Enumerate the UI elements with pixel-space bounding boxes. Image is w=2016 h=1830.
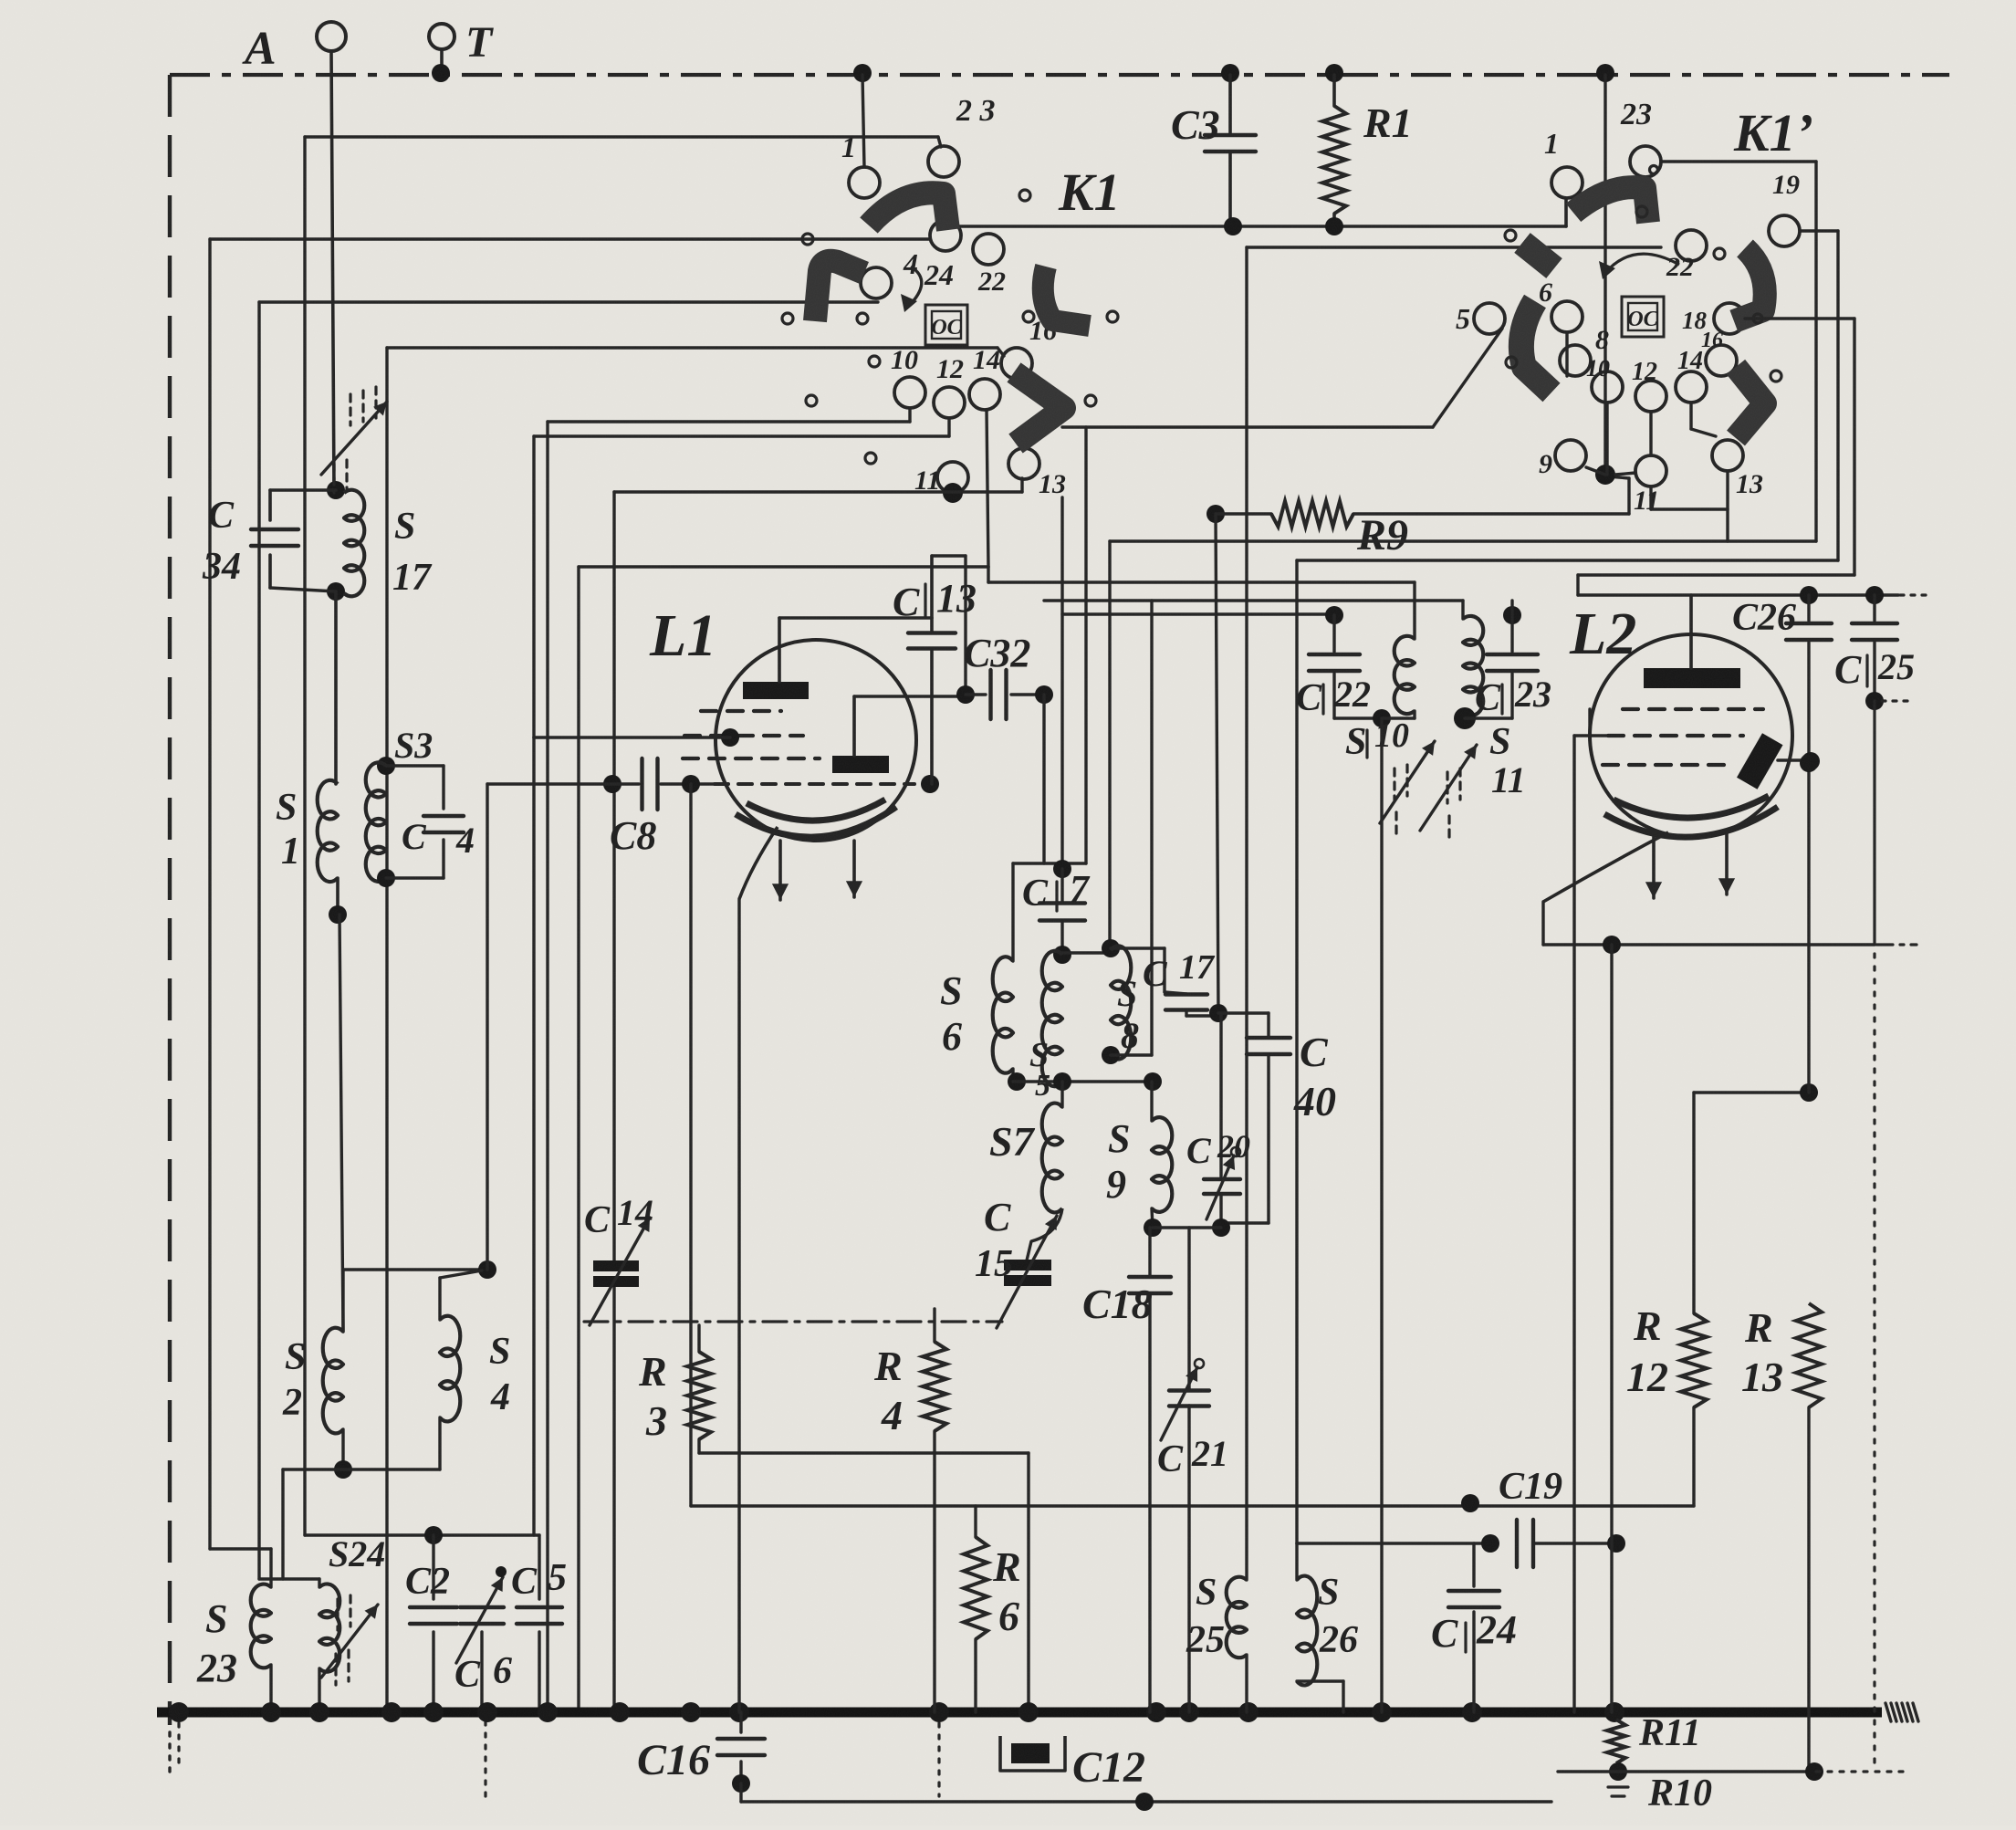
wire A down bbox=[331, 51, 334, 489]
C32 label bbox=[964, 631, 1030, 675]
K1' contact 8 bbox=[1560, 325, 1609, 376]
K1 open dot 8 bbox=[869, 356, 880, 367]
wire L2 grid frame bbox=[1574, 736, 1590, 1712]
capacitor C21 (variable) bbox=[1161, 1228, 1209, 1712]
capacitor C2 bbox=[410, 1535, 457, 1712]
R9 label bbox=[1356, 511, 1408, 559]
coil S8 bbox=[1111, 946, 1131, 1059]
node y1035 bbox=[1603, 936, 1621, 954]
K1 label bbox=[1058, 162, 1121, 222]
L1 anode wire bbox=[779, 616, 932, 620]
wire frame to K1 contact 1 bbox=[862, 75, 864, 167]
wire V x334 bbox=[303, 137, 306, 1535]
C16 label bbox=[637, 1736, 710, 1784]
node y1974 bbox=[1135, 1793, 1154, 1811]
wire S1 bottom bbox=[336, 878, 339, 915]
coil S25 bbox=[1227, 1506, 1247, 1712]
capacitor C3 bbox=[1205, 75, 1256, 226]
wire 23' lead bbox=[1661, 160, 1816, 162]
node C7 bottom bbox=[1053, 946, 1071, 964]
L2 heater arrow 2 bbox=[1718, 833, 1735, 894]
node C17 right bbox=[1209, 1004, 1227, 1022]
resistor R11 bbox=[1607, 1720, 1625, 1763]
K1 contact 13 bbox=[1008, 448, 1066, 499]
wire R9 right up bbox=[1608, 476, 1629, 514]
L1 heater arrow 2 bbox=[846, 841, 862, 897]
coil S17 bbox=[344, 490, 364, 597]
K1 open dot 3 bbox=[782, 313, 793, 324]
R6 label bbox=[992, 1543, 1021, 1639]
K1' rotor blade a bbox=[1573, 187, 1648, 223]
row y1035 dash-dot tail bbox=[1876, 943, 1917, 946]
S1 label bbox=[276, 787, 300, 873]
capacitor C18 bbox=[1129, 1228, 1171, 1712]
wire 9'-11 link bbox=[1586, 467, 1605, 475]
wire 10' drop bbox=[1605, 403, 1608, 475]
wire row y1035 bbox=[1543, 943, 1875, 946]
wire row y1197 bbox=[1694, 1091, 1809, 1093]
S24 label bbox=[329, 1533, 385, 1574]
node y1941 right bbox=[1805, 1762, 1823, 1781]
wire R3 bottom row bbox=[699, 1453, 1029, 1712]
L1 grid rows bbox=[683, 711, 820, 758]
L1 anode bbox=[743, 618, 809, 699]
K1 contact 11 bbox=[914, 462, 968, 496]
wire C13 top row bbox=[932, 556, 966, 689]
S9 label bbox=[1106, 1116, 1130, 1207]
bus node x1303 bbox=[1179, 1702, 1199, 1722]
wire S23 bottom bbox=[269, 1665, 272, 1712]
K1' contact 9 bbox=[1539, 440, 1586, 479]
C13 label bbox=[893, 576, 977, 624]
bus node x1514 bbox=[1372, 1702, 1392, 1722]
bus node x757 bbox=[681, 1702, 701, 1722]
wire C8 right down bbox=[689, 784, 692, 1506]
S5 label bbox=[1029, 1036, 1050, 1103]
wire S8 top link bbox=[1062, 951, 1111, 954]
capacitor C34 bbox=[251, 490, 336, 591]
L1 heater arrow 1 bbox=[772, 841, 789, 900]
K1' rotor blade c bbox=[1734, 248, 1765, 321]
node R1 bottom bbox=[1325, 217, 1343, 235]
bus node x196 bbox=[169, 1702, 189, 1722]
K1' contact 22 bbox=[1666, 230, 1707, 282]
L1 cathode exit bbox=[739, 827, 778, 899]
wire row y1941 bbox=[1558, 1770, 1809, 1772]
wire y1974 bbox=[741, 1783, 1551, 1802]
bus node x1613 bbox=[1462, 1702, 1482, 1722]
wire S9 bottom bbox=[1152, 1208, 1153, 1228]
wire contact14 drop bbox=[987, 410, 988, 567]
wire frame 18' bbox=[1578, 319, 1854, 575]
C34 label bbox=[202, 495, 241, 588]
bus node x534 bbox=[477, 1702, 497, 1722]
node S2 bottom bbox=[334, 1460, 352, 1479]
K1' contact 12 bbox=[1632, 358, 1666, 412]
wire C25 down dashed2 bbox=[1873, 954, 1875, 1766]
border top dashed bbox=[170, 73, 1949, 77]
S17 label bbox=[392, 506, 433, 599]
wire V x1766 bbox=[1610, 945, 1613, 1712]
R11 bottom tick bbox=[1608, 1787, 1628, 1796]
K1 contact 24 bbox=[924, 220, 961, 291]
K1 selector arrow bbox=[901, 267, 922, 312]
K1' node 11 bbox=[1595, 465, 1615, 485]
K1' contact 6 bbox=[1539, 277, 1583, 332]
K1' rotor blade b bbox=[1522, 243, 1554, 268]
wire V x585 bbox=[532, 436, 535, 1535]
node on frame (C3) bbox=[1221, 64, 1239, 82]
gang line (dash-dot) bbox=[584, 1320, 1002, 1323]
coil S1 bbox=[318, 780, 338, 882]
node C23 top bbox=[1503, 606, 1521, 624]
node on frame (R1) bbox=[1325, 64, 1343, 82]
L2 diagonal electrode bbox=[1737, 733, 1809, 789]
capacitor C26 bbox=[1786, 595, 1832, 763]
wire S17 to S1 bbox=[334, 591, 338, 784]
wire S7 top bbox=[1060, 1082, 1063, 1107]
R13 label bbox=[1741, 1304, 1783, 1400]
wire S8 bottom link bbox=[1111, 1053, 1152, 1056]
R4 label bbox=[873, 1343, 903, 1438]
L2 cathode exit bbox=[1543, 832, 1668, 902]
node S3 top bbox=[377, 757, 395, 775]
C15 label bbox=[975, 1195, 1013, 1285]
wire R9 column bbox=[1216, 514, 1218, 1013]
wire S7-C15 bbox=[1027, 1208, 1062, 1260]
wire 12' drop bbox=[1649, 412, 1652, 455]
resistor R1 bbox=[1322, 75, 1346, 226]
wire 14' drop bbox=[1691, 403, 1716, 436]
C40 label bbox=[1293, 1029, 1336, 1124]
wire S24 feed bbox=[259, 1579, 319, 1587]
wire cathode L2 down bbox=[1541, 902, 1544, 945]
wire row y1650 bbox=[691, 1504, 1694, 1507]
L2 heater arrow 1 bbox=[1645, 837, 1662, 898]
K1' open dot 1 bbox=[1650, 166, 1658, 174]
K1' contact6 wire bbox=[1565, 332, 1568, 376]
node C25 top bbox=[1865, 586, 1884, 604]
wire S4 bottom bbox=[438, 1417, 441, 1469]
K1' contact 16 bbox=[1701, 329, 1737, 376]
C8 label bbox=[610, 813, 656, 858]
wire cathode L1 down bbox=[737, 899, 740, 1712]
wire V x1729 bbox=[1576, 575, 1579, 595]
K1 contact 22 bbox=[973, 234, 1006, 297]
S4 label bbox=[489, 1331, 510, 1418]
L1 cathode arcs bbox=[736, 800, 896, 837]
wire V x1366 bbox=[1245, 247, 1248, 1506]
S26 label bbox=[1318, 1572, 1358, 1661]
wire S10 down bbox=[1380, 718, 1383, 1712]
ground bus bbox=[157, 1708, 1882, 1718]
capacitor C13 bbox=[908, 556, 956, 784]
terminal A label bbox=[242, 23, 277, 75]
wire V x1164 top bbox=[1060, 497, 1063, 869]
node C20 bottom bbox=[1212, 1218, 1230, 1237]
wire V x1083b bbox=[987, 567, 989, 582]
R3 label bbox=[638, 1348, 667, 1444]
capacitor C5 bbox=[517, 1535, 562, 1712]
wire C20 top bbox=[1219, 1013, 1222, 1179]
K1' contact 14 bbox=[1676, 347, 1707, 403]
wire y1691 bbox=[1297, 1543, 1490, 1580]
wire V x1262 bbox=[1150, 601, 1153, 1055]
K1' contact 23 bbox=[1620, 98, 1661, 177]
wire contact13 row bbox=[614, 478, 1022, 492]
triode L2 envelope bbox=[1590, 634, 1792, 837]
node C16 bottom bbox=[732, 1774, 750, 1793]
node C3 bottom bbox=[1224, 217, 1242, 235]
S2 label bbox=[282, 1336, 306, 1424]
wire C17-C40 bbox=[1218, 1013, 1269, 1037]
L2 anode bbox=[1644, 595, 1740, 688]
L2 cathode arcs bbox=[1604, 796, 1778, 837]
K1 contact 4 bbox=[861, 247, 918, 298]
C2 label bbox=[405, 1561, 450, 1603]
bus node x1769 bbox=[1604, 1702, 1624, 1722]
R12 label bbox=[1626, 1302, 1668, 1400]
node C19 junction bbox=[1461, 1494, 1479, 1512]
K1 rotor blade c bbox=[1043, 267, 1090, 326]
K1' open dot 5 bbox=[1753, 314, 1762, 323]
coil S4 bbox=[440, 1316, 460, 1422]
K1 open dot 4 bbox=[857, 313, 868, 324]
resistor R13 bbox=[1796, 1303, 1822, 1772]
node S4 top bbox=[478, 1260, 496, 1279]
S17 tuning hatch bbox=[321, 387, 387, 493]
node C8 left bbox=[603, 775, 622, 793]
capacitor C19 bbox=[1517, 1520, 1616, 1567]
capacitor C40 bbox=[1221, 1038, 1290, 1223]
wire K1-16 feed bbox=[387, 348, 1004, 356]
coil S5 bbox=[1042, 951, 1062, 1086]
node S9 bottom bbox=[1144, 1218, 1162, 1237]
node grid-cath right bbox=[921, 775, 939, 793]
K1 open dot 9 bbox=[865, 453, 876, 464]
node S17 bottom bbox=[327, 582, 345, 601]
node R11 bottom bbox=[1609, 1762, 1627, 1781]
wire K1-24 feed bbox=[210, 237, 929, 240]
capacitor C8 bbox=[487, 758, 715, 810]
wire V x1421 bbox=[1295, 560, 1298, 1543]
wire V x634 bbox=[577, 567, 580, 1712]
node C25 bottom bbox=[1865, 692, 1884, 710]
wire R12 top bbox=[1692, 1093, 1695, 1313]
node on frame (K1) bbox=[853, 64, 872, 82]
capacitor C22 bbox=[1309, 615, 1382, 718]
wire row y638 bbox=[988, 580, 1415, 583]
C5 label bbox=[511, 1557, 567, 1603]
bus node x810 bbox=[729, 1702, 749, 1722]
C25 dotted tail bbox=[1882, 699, 1907, 702]
C22 label bbox=[1296, 674, 1371, 719]
wire T to frame bbox=[440, 49, 444, 71]
terminal T bbox=[429, 24, 454, 49]
capacitor C6 (variable) bbox=[456, 1566, 507, 1712]
triode L1 envelope bbox=[716, 640, 916, 841]
wire C19 to R12 bbox=[1692, 1407, 1695, 1506]
capacitor C17 bbox=[1111, 948, 1218, 1016]
resistor R9 bbox=[1216, 501, 1629, 527]
wire row y621 bbox=[579, 565, 988, 568]
K1' OC box bbox=[1622, 297, 1664, 337]
resistor R6 bbox=[964, 1506, 987, 1712]
wire S9 top lead bbox=[1150, 1082, 1153, 1121]
bus node x1368 bbox=[1238, 1702, 1259, 1722]
K1 contact 1 bbox=[841, 131, 880, 198]
coil S6 bbox=[993, 957, 1013, 1072]
coil S2 bbox=[323, 1328, 343, 1434]
wire row y271 bbox=[1247, 246, 1661, 248]
wire frame 19' bbox=[1297, 231, 1838, 560]
node S6 bottom bbox=[1008, 1072, 1026, 1091]
K1' contact 19 bbox=[1769, 170, 1800, 246]
K1 contact 16 bbox=[1001, 316, 1057, 379]
C4 label bbox=[402, 816, 475, 861]
wire S1-S2 link bbox=[339, 915, 343, 1332]
wire frame to K1' rotor bbox=[1603, 75, 1606, 465]
bus node x475 bbox=[423, 1702, 444, 1722]
border left dotted tail bbox=[168, 1732, 171, 1772]
K1 rotor blade b bbox=[815, 261, 864, 321]
K1' rotor blade d bbox=[1521, 301, 1551, 392]
node C8 right bbox=[682, 775, 700, 793]
coil S7 bbox=[1042, 1103, 1062, 1213]
wire V x1216 bbox=[1108, 541, 1111, 948]
K1 contact 14 bbox=[969, 345, 1000, 410]
K1 open dot 2 bbox=[1019, 190, 1030, 201]
K1 open dot 6 bbox=[1107, 311, 1118, 322]
bus node x1127 bbox=[1018, 1702, 1039, 1722]
K1 rotor blade a bbox=[869, 193, 948, 230]
node S11 bottom bbox=[1454, 707, 1476, 729]
S7 label bbox=[989, 1118, 1036, 1165]
bus node x1029 bbox=[929, 1702, 949, 1722]
S10 S11 tuning hatch bbox=[1380, 741, 1477, 843]
row y652 dotted tail bbox=[1900, 593, 1926, 596]
wire V x1190 bbox=[1084, 427, 1087, 863]
wire 13' drop bbox=[1726, 471, 1729, 541]
K1' contact 18 bbox=[1682, 303, 1745, 334]
L2 grid exit rows bbox=[1590, 709, 1608, 736]
K1' rotor blade e bbox=[1736, 367, 1765, 438]
wire 11' link bbox=[1615, 473, 1728, 509]
S24 tuning hatch bbox=[321, 1595, 378, 1685]
bus node x297 bbox=[261, 1702, 281, 1722]
R10 label bbox=[1647, 1772, 1712, 1814]
S10 label bbox=[1345, 716, 1409, 763]
K1 contact 23 bbox=[928, 94, 996, 177]
wire B+ row (C3/R1) bbox=[945, 199, 1566, 226]
bus node x600 bbox=[538, 1702, 558, 1722]
wire S2 top up bbox=[343, 1270, 487, 1332]
L1 electrode2 wire bbox=[854, 695, 960, 697]
resistor R3 bbox=[687, 1325, 711, 1453]
capacitor C25 bbox=[1852, 595, 1897, 695]
L2 label bbox=[1569, 601, 1636, 667]
C6 label bbox=[454, 1650, 512, 1696]
bus hatch end bbox=[1885, 1703, 1918, 1721]
K1' contact5 wire bbox=[1062, 329, 1502, 427]
wire y1345 bbox=[1153, 1226, 1221, 1229]
terminal T label bbox=[465, 18, 494, 67]
capacitor C7 bbox=[1039, 869, 1085, 955]
K1 open dot 1 bbox=[802, 234, 813, 245]
bus node x350 bbox=[309, 1702, 329, 1722]
wire contact12 row bbox=[534, 418, 949, 436]
K1' open dot 7 bbox=[1771, 371, 1781, 382]
K1 OC box bbox=[925, 305, 967, 345]
K1 open dot 7 bbox=[806, 395, 817, 406]
S8 label bbox=[1117, 973, 1139, 1056]
capacitor C16 bbox=[717, 1712, 765, 1783]
K1' contact 1 bbox=[1544, 127, 1583, 198]
node C2 top bbox=[424, 1526, 443, 1544]
node S8 top bbox=[1102, 939, 1120, 957]
C19 label bbox=[1499, 1466, 1562, 1508]
coil S26 bbox=[1297, 1576, 1343, 1712]
node C26 top bbox=[1800, 586, 1818, 604]
wire y1682 bbox=[305, 1533, 539, 1536]
bus node x429 bbox=[381, 1702, 402, 1722]
node C19 right bbox=[1607, 1534, 1625, 1553]
wire K1-4 feed bbox=[259, 300, 878, 303]
C17 label bbox=[1143, 948, 1216, 994]
node C32 left bbox=[956, 685, 975, 704]
K1 contact 11 blob bbox=[943, 483, 963, 503]
wire V x230 bbox=[208, 239, 211, 1549]
K1' contact 13 bbox=[1712, 440, 1763, 499]
C14 label bbox=[584, 1192, 653, 1241]
node S5 bottom bbox=[1053, 1072, 1071, 1091]
R11 label bbox=[1638, 1712, 1701, 1754]
wire S10 bottom link bbox=[1382, 716, 1415, 719]
C23 label bbox=[1475, 674, 1551, 719]
node C32 right bbox=[1035, 685, 1053, 704]
wire contact10 row bbox=[548, 408, 910, 422]
terminal A bbox=[317, 22, 346, 51]
C25 label bbox=[1834, 646, 1915, 692]
K1 open dot 10 bbox=[1085, 395, 1096, 406]
coil S10 bbox=[1394, 582, 1415, 718]
node C19 left bbox=[1481, 1534, 1499, 1553]
wire row y673 bbox=[1062, 612, 1334, 615]
C7 label bbox=[1022, 869, 1091, 915]
wire row y658 bbox=[1044, 599, 1463, 601]
C26 label bbox=[1732, 597, 1796, 639]
K1 rotor blade d bbox=[1014, 372, 1064, 444]
node S17 top bbox=[327, 481, 345, 499]
L1 grid node bbox=[721, 728, 739, 747]
L1 cathode dashline bbox=[715, 782, 914, 786]
wire row y1185 bbox=[1013, 1080, 1153, 1082]
capacitor C12 (feedthrough) bbox=[1000, 1736, 1065, 1771]
S23 label bbox=[196, 1596, 237, 1690]
capacitor C20 (variable) bbox=[1204, 1147, 1240, 1228]
coil S23 bbox=[251, 1584, 271, 1668]
C21 label bbox=[1157, 1433, 1228, 1480]
K1' contact 5 bbox=[1456, 302, 1505, 335]
S25 label bbox=[1186, 1572, 1225, 1661]
K1' open dot 3 bbox=[1505, 230, 1516, 241]
bus dotted tail R4 bbox=[937, 1723, 940, 1796]
wire V x424 bbox=[385, 348, 388, 1712]
wire C32 down bbox=[1013, 695, 1086, 961]
K1' label bbox=[1733, 103, 1813, 162]
coil S24 bbox=[319, 1584, 339, 1671]
wire K1-23 feed bbox=[305, 137, 941, 147]
